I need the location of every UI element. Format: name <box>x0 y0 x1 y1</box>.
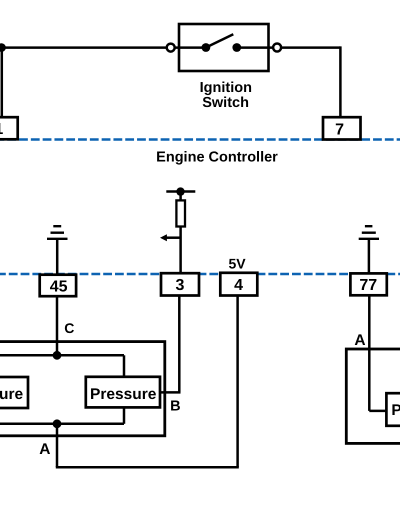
svg-text:B: B <box>170 399 180 415</box>
svg-text:A: A <box>39 441 50 458</box>
svg-text:77: 77 <box>359 277 377 294</box>
svg-text:Pressure: Pressure <box>0 386 24 403</box>
svg-text:45: 45 <box>50 278 68 295</box>
svg-text:5V: 5V <box>228 255 246 271</box>
svg-text:Ignition: Ignition <box>200 80 252 96</box>
svg-text:1: 1 <box>0 121 3 138</box>
svg-text:4: 4 <box>234 277 243 294</box>
svg-text:7: 7 <box>335 121 344 138</box>
svg-text:Pressure: Pressure <box>90 386 157 403</box>
svg-text:3: 3 <box>176 277 185 294</box>
svg-text:C: C <box>64 320 74 336</box>
svg-text:A: A <box>354 332 365 349</box>
svg-text:Engine Controller: Engine Controller <box>156 150 278 166</box>
svg-text:Switch: Switch <box>202 95 249 111</box>
svg-text:Pressure: Pressure <box>391 402 400 419</box>
